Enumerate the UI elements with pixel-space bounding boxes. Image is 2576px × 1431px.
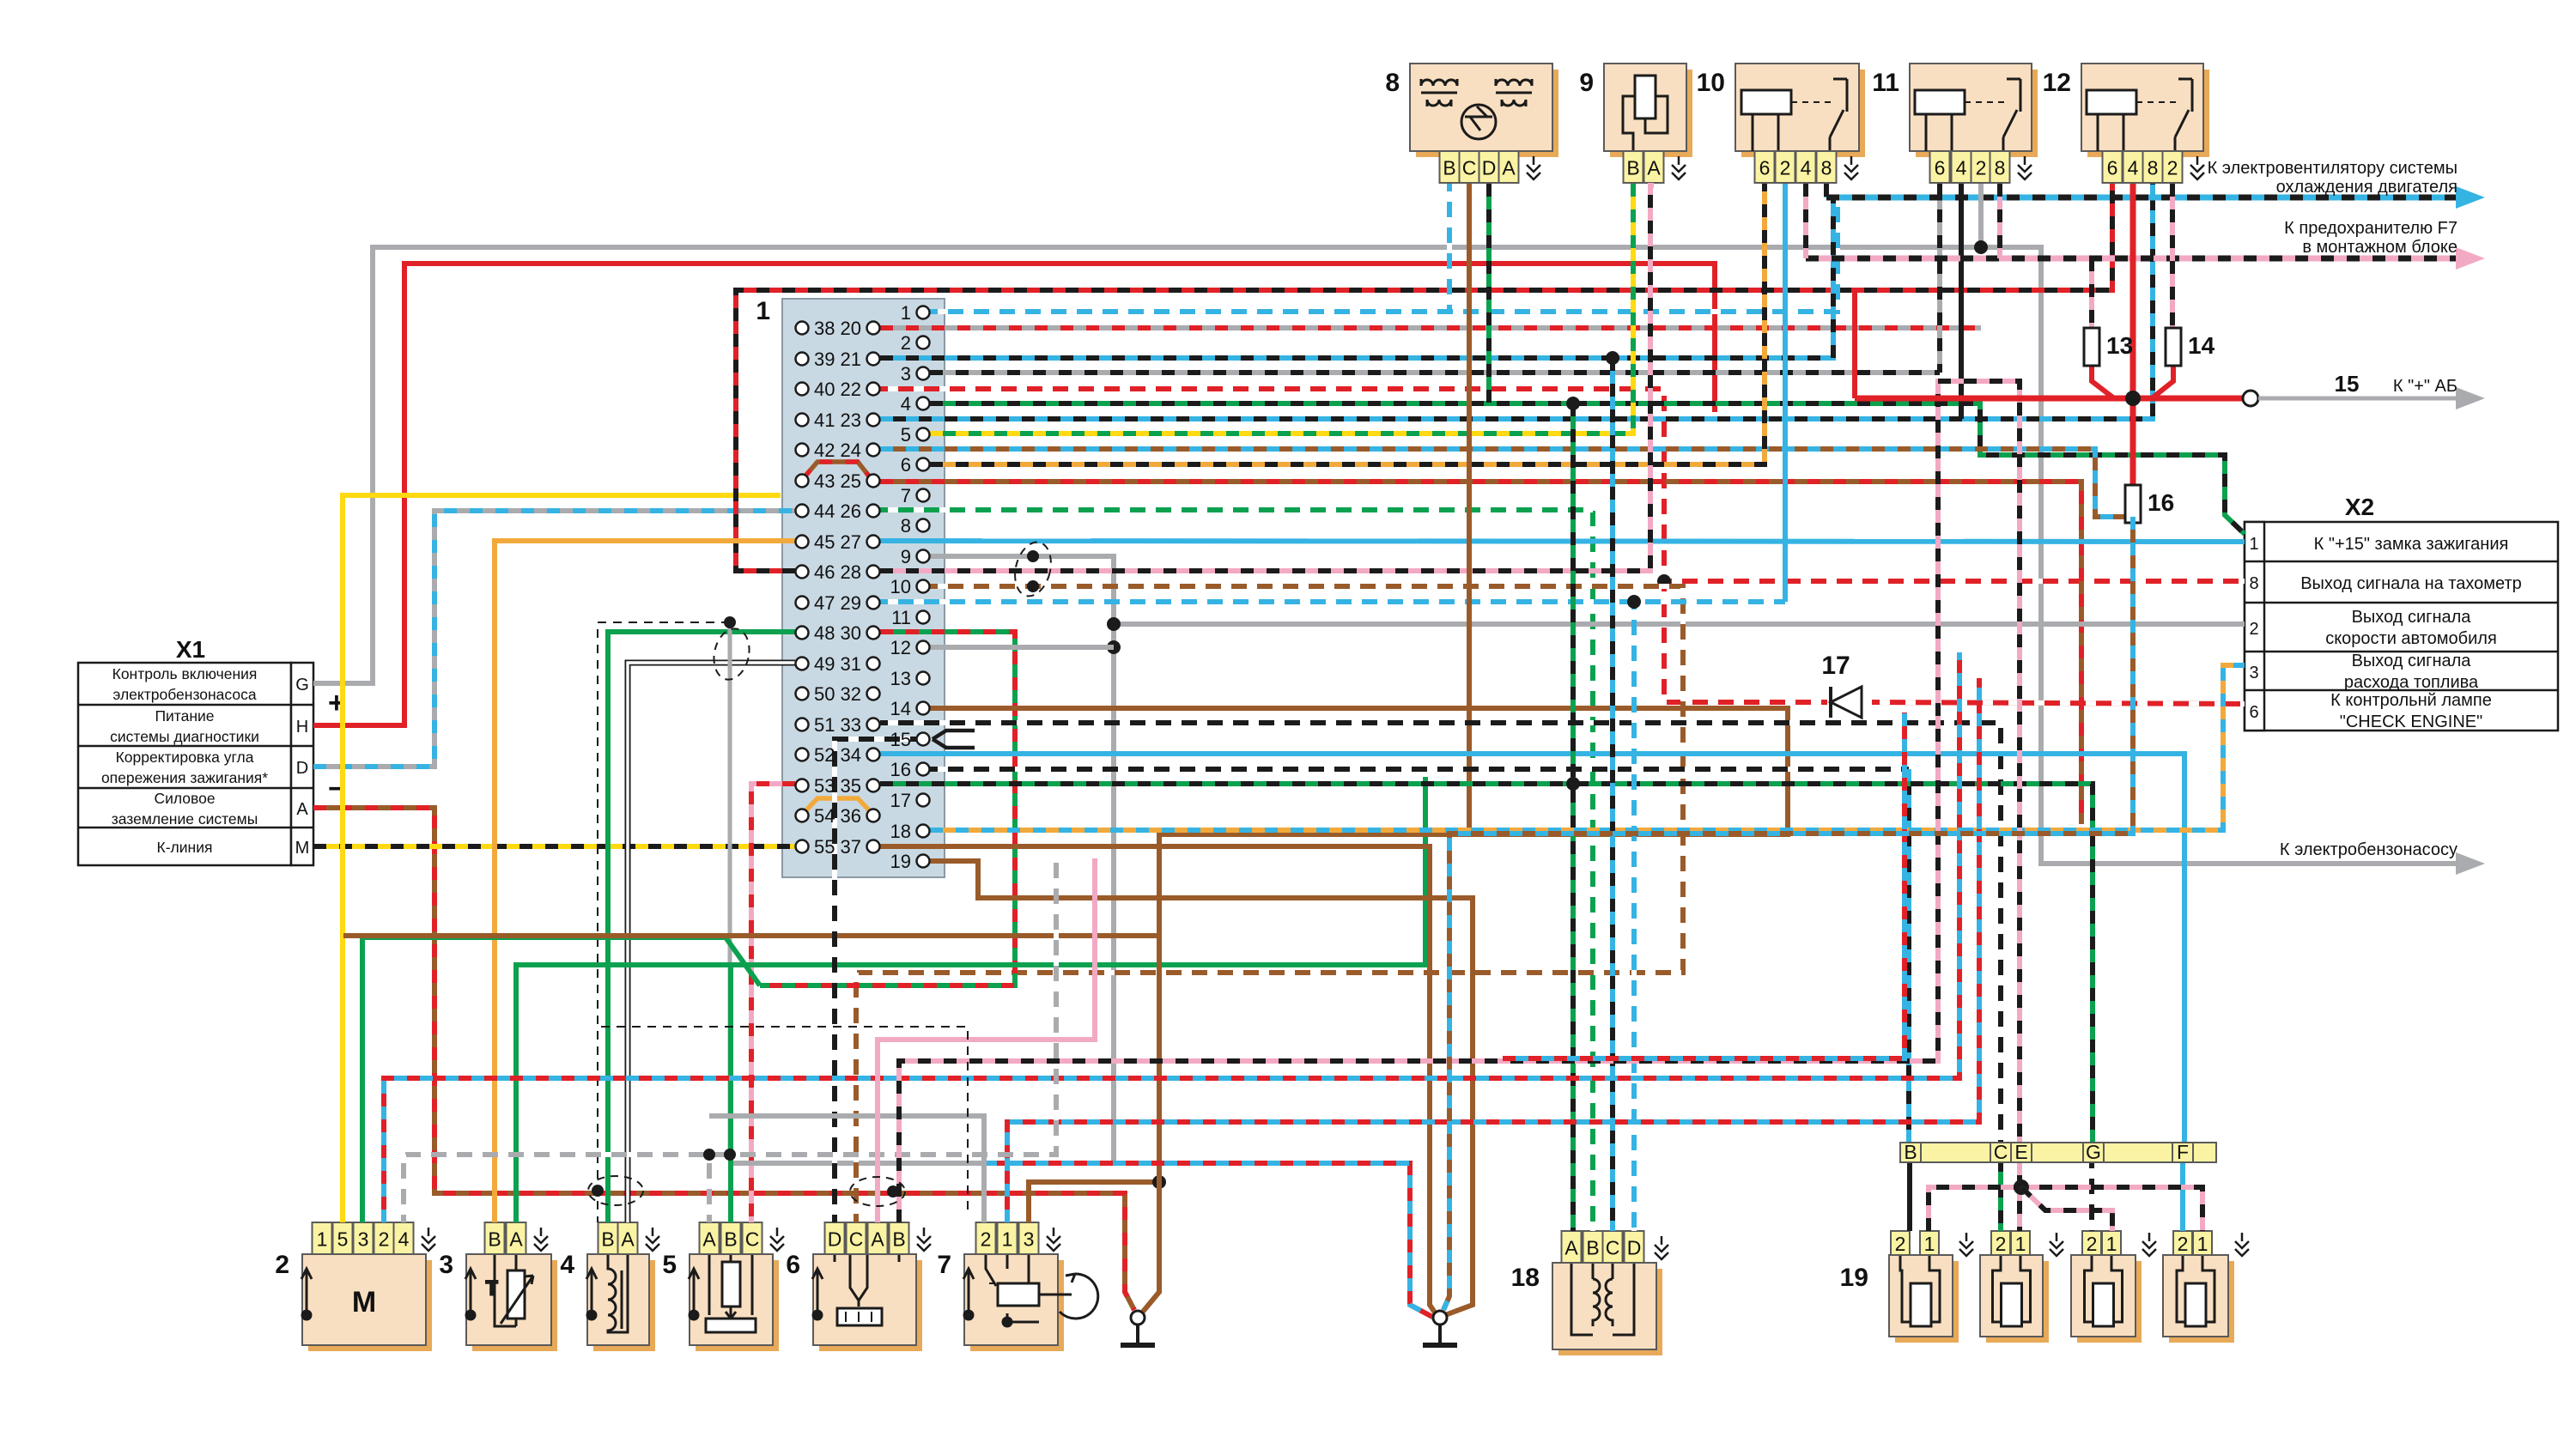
wire black-white injector 3 pin 2	[2089, 1161, 2094, 1231]
wire green crank sensor B to pin 48	[608, 632, 795, 1222]
svg-text:К электробензонасосу: К электробензонасосу	[2280, 840, 2458, 859]
shield screen dashed outline	[598, 622, 730, 1222]
svg-text:A: A	[1564, 1237, 1578, 1259]
wire pink-black to fuse 13	[2089, 258, 2094, 328]
wire gray-black pin 3 to relay 11 pin 6	[930, 370, 1940, 375]
wire pink-black to fuse F7	[1806, 256, 2456, 262]
svg-text:15: 15	[2335, 371, 2360, 397]
svg-text:14: 14	[890, 698, 911, 719]
wire gray-white pump pin 4 bus	[404, 858, 1056, 1222]
injector 19.3	[2077, 1261, 2142, 1343]
component 2 fuel pump motor	[308, 1260, 432, 1351]
wire red-white tachometer output to X2 row 8	[1664, 579, 2245, 584]
svg-text:Выход сигнала: Выход сигнала	[2352, 608, 2472, 627]
svg-text:11: 11	[891, 607, 911, 628]
wire green-yellow pin 5 to module 9 pin B	[930, 184, 1633, 434]
svg-text:21: 21	[841, 349, 861, 370]
svg-text:2: 2	[275, 1251, 289, 1279]
svg-text:7: 7	[937, 1251, 951, 1279]
module 9 spark plug block	[1610, 70, 1692, 157]
svg-text:34: 34	[841, 744, 861, 766]
svg-text:8: 8	[901, 515, 911, 537]
svg-text:31: 31	[841, 653, 861, 675]
svg-text:B: B	[1904, 1141, 1917, 1163]
svg-text:3: 3	[1024, 1228, 1035, 1251]
svg-text:"CHECK ENGINE": "CHECK ENGINE"	[2340, 712, 2482, 731]
relay 10	[1741, 70, 1865, 157]
svg-text:H: H	[296, 718, 308, 737]
svg-text:B: B	[601, 1228, 614, 1251]
svg-text:5: 5	[337, 1228, 349, 1251]
svg-text:8: 8	[2249, 574, 2258, 593]
wire blue pin 27 to X2 ignition switch row	[880, 541, 2245, 542]
wire brown-blue pin 24 to fuse 16	[880, 449, 2133, 517]
component 6 idle valve symbol	[835, 1254, 899, 1325]
svg-text:17: 17	[890, 790, 911, 811]
svg-text:2: 2	[1996, 1233, 2007, 1255]
wire blue-white pin 1	[930, 203, 1838, 312]
svg-text:системы диагностики: системы диагностики	[110, 728, 259, 745]
wire gray speed signal to X2 row 2	[1114, 622, 2245, 627]
svg-text:1: 1	[2197, 1233, 2208, 1255]
svg-text:1: 1	[756, 297, 770, 325]
connector X2 table	[2245, 522, 2558, 731]
wire green-white pin 26 to coil 18 B	[880, 510, 1593, 1231]
fuse 14	[2166, 328, 2215, 366]
ground	[1121, 1311, 1155, 1345]
svg-text:опережения зажигания*: опережения зажигания*	[101, 769, 268, 786]
svg-text:A: A	[509, 1228, 523, 1251]
svg-text:6: 6	[2107, 157, 2118, 179]
wire blue-black coil 18 C	[1610, 358, 1615, 1231]
wire black injector 1 pin 2	[1907, 1161, 1912, 1231]
svg-text:T: T	[486, 1277, 497, 1299]
wire jumper pin 54 to pin 36	[802, 798, 873, 815]
svg-text:12: 12	[890, 637, 911, 658]
svg-text:9: 9	[901, 546, 911, 567]
wire green-black module 8 pin D drop	[1486, 184, 1492, 403]
svg-text:2: 2	[1895, 1233, 1906, 1255]
svg-text:2: 2	[901, 332, 911, 354]
svg-text:B: B	[1586, 1237, 1599, 1259]
svg-text:A: A	[296, 800, 308, 819]
svg-text:C: C	[849, 1228, 864, 1251]
svg-text:Корректировка угла: Корректировка угла	[116, 749, 254, 766]
wire orange temp sensor B to pin 45	[495, 541, 795, 1222]
wire blue-white module 8 pin B	[1447, 184, 1452, 312]
svg-text:B: B	[724, 1228, 737, 1251]
svg-text:1: 1	[317, 1228, 328, 1251]
component 7 speed sensor	[970, 1260, 1064, 1351]
svg-text:G: G	[295, 676, 309, 694]
wire red fuse 13 out	[2092, 366, 2114, 398]
svg-text:47: 47	[814, 592, 835, 614]
wire gray shield drain	[728, 622, 732, 1155]
svg-text:43: 43	[814, 470, 835, 492]
wire black pin 15 fork upper	[933, 731, 975, 739]
wire brown ground bus	[343, 936, 1159, 1312]
svg-text:1: 1	[2015, 1233, 2026, 1255]
svg-text:45: 45	[814, 531, 835, 553]
relay coil and contact	[1915, 79, 2020, 151]
svg-text:охлаждения двигателя: охлаждения двигателя	[2276, 178, 2458, 197]
relay coil and contact	[1741, 79, 1847, 151]
component 3 coolant temp sensor	[472, 1260, 557, 1351]
injector 19.4	[2169, 1261, 2234, 1343]
svg-text:1: 1	[1924, 1233, 1935, 1255]
svg-text:электробензонасоса: электробензонасоса	[112, 686, 256, 703]
wire gray speed sensor pin 2	[709, 1116, 984, 1222]
wire brown-white pin 10 to idle valve C	[856, 586, 1683, 1222]
fuse 16	[2125, 485, 2174, 523]
svg-text:53: 53	[814, 775, 835, 797]
injector 19.1	[1895, 1261, 1959, 1343]
svg-text:13: 13	[2106, 332, 2133, 359]
wire blue-white coil 18 D	[1631, 602, 1637, 1231]
svg-text:заземление системы: заземление системы	[112, 810, 258, 828]
wire gray pin 12	[930, 645, 1114, 650]
svg-text:4: 4	[398, 1228, 410, 1251]
component 7 speed sensor symbol	[986, 1254, 1098, 1326]
fuse 13	[2084, 328, 2133, 366]
svg-text:12: 12	[2043, 69, 2071, 97]
wire brown module 8 pin C drop	[1467, 184, 1472, 834]
component 6 idle air control	[819, 1260, 922, 1351]
wire orange-black pin 6 to relay 10 pin 6	[930, 184, 1765, 464]
component 4 crankshaft sensor	[593, 1260, 655, 1351]
svg-text:46: 46	[814, 561, 835, 583]
svg-text:Выход сигнала на тахометр: Выход сигнала на тахометр	[2300, 574, 2522, 593]
svg-text:16: 16	[890, 759, 911, 780]
wire blue pin 34 to injector bar F	[880, 754, 2184, 1143]
svg-text:2: 2	[379, 1228, 390, 1251]
svg-text:15: 15	[890, 729, 911, 750]
svg-text:30: 30	[841, 622, 861, 644]
twisted pair ellipse pins 9-28	[1010, 538, 1056, 600]
wire gray-black relay 11 pin 6 drop	[1937, 184, 1942, 373]
svg-text:23: 23	[841, 409, 861, 431]
svg-text:D: D	[1482, 157, 1497, 179]
diode 17	[1831, 687, 1862, 718]
svg-text:41: 41	[814, 409, 835, 431]
svg-text:8: 8	[2148, 157, 2159, 179]
svg-text:55: 55	[814, 836, 835, 858]
svg-text:F: F	[2177, 1141, 2189, 1163]
svg-text:Контроль включения: Контроль включения	[112, 665, 258, 682]
svg-text:2: 2	[2249, 620, 2258, 639]
wire pink idle valve A	[878, 858, 1095, 1222]
ECU pins	[796, 302, 930, 872]
svg-text:29: 29	[841, 592, 861, 614]
wire red-black main power pin 46 to relay 12 pin 6	[736, 184, 2112, 571]
wire red node 15 bus	[1855, 396, 2243, 402]
svg-text:К контрольнй лампе: К контрольнй лампе	[2330, 691, 2492, 710]
wire red-blue pump relay bus	[384, 652, 1959, 1222]
svg-text:B: B	[1443, 157, 1455, 179]
svg-text:1: 1	[2249, 535, 2258, 554]
wire brown-red pin 25 bus	[880, 482, 2081, 824]
wire blue-black pin 21	[880, 197, 1833, 358]
wire red relay 12 pin 4 battery feed	[2130, 184, 2136, 485]
svg-text:A: A	[1502, 157, 1516, 179]
wire yellow-black K-line M to pin 55	[313, 844, 795, 849]
svg-text:11: 11	[1872, 69, 1899, 97]
svg-text:20: 20	[841, 318, 861, 339]
wire red-blue to ground	[984, 1163, 1434, 1318]
svg-text:A: A	[1647, 157, 1661, 179]
svg-text:7: 7	[901, 485, 911, 506]
svg-text:A: A	[871, 1228, 884, 1251]
svg-text:D: D	[828, 1228, 842, 1251]
svg-text:2: 2	[2167, 157, 2178, 179]
wire gray-white throttle pin A	[707, 1155, 712, 1222]
svg-text:Питание: Питание	[155, 707, 214, 725]
wire blue-red bus	[1503, 712, 1905, 1058]
wire green-black pin 35 to injector bar G	[880, 784, 2093, 1143]
svg-text:К "+" АБ: К "+" АБ	[2393, 377, 2458, 396]
svg-text:1: 1	[901, 302, 911, 324]
svg-text:B: B	[1626, 157, 1639, 179]
wire pink-black relay 12 pin 2 to fuse 14	[2170, 184, 2175, 328]
svg-text:скорости автомобиля: скорости автомобиля	[2325, 629, 2497, 648]
wire red diagnostics supply H	[313, 264, 1715, 725]
svg-text:3: 3	[439, 1251, 453, 1279]
svg-text:C: C	[745, 1228, 760, 1251]
svg-text:1: 1	[2106, 1233, 2117, 1255]
svg-text:16: 16	[2148, 489, 2174, 516]
svg-text:42: 42	[814, 440, 835, 461]
arrow to fuse F7 mounting block	[2456, 247, 2485, 270]
svg-text:в монтажном блоке: в монтажном блоке	[2302, 238, 2458, 257]
svg-text:10: 10	[1697, 69, 1725, 97]
wire green temp sensor A	[516, 777, 1425, 1222]
wire white pair crank sensor A to pin 49	[628, 663, 795, 1222]
svg-text:6: 6	[1759, 157, 1771, 179]
wire red fuse 14 out	[2152, 366, 2173, 398]
svg-text:48: 48	[814, 622, 835, 644]
wire blue-black to radiator fan	[1826, 195, 2456, 201]
relay 11	[1916, 70, 2038, 157]
wire blue-black relay 10 pin 8 drop	[1824, 184, 1829, 197]
shield screen dashed outline idle valve	[601, 1027, 968, 1210]
wire blue injector 4 pin 2	[2180, 1161, 2185, 1231]
wire brown-blue fuse 16 to engine ground	[1443, 517, 2133, 1310]
svg-text:3: 3	[358, 1228, 369, 1251]
svg-text:C: C	[1994, 1141, 2008, 1163]
svg-text:2: 2	[981, 1228, 992, 1251]
svg-text:К электровентилятору системы: К электровентилятору системы	[2208, 159, 2458, 178]
svg-text:54: 54	[814, 805, 835, 827]
svg-text:A: A	[621, 1228, 635, 1251]
svg-text:44: 44	[814, 500, 835, 522]
wire brown pin 14 return	[930, 708, 1788, 936]
wire pink-red throttle sensor C to pin 53	[751, 784, 795, 1222]
wire gray-blue ignition timing D to pin 44	[313, 511, 795, 767]
svg-text:6: 6	[786, 1251, 800, 1279]
connector X1 table	[78, 663, 313, 865]
svg-text:38: 38	[814, 318, 835, 339]
arrow to engine cooling fan	[2456, 186, 2485, 209]
svg-text:4: 4	[1956, 157, 1967, 179]
ECU connector block 1	[782, 299, 945, 877]
yellow connector bar B C E G F	[1900, 1143, 2216, 1162]
svg-text:27: 27	[841, 531, 861, 553]
wire red branch	[1852, 290, 1857, 398]
wire brown pin 19 to ground	[930, 861, 1473, 1315]
svg-text:39: 39	[814, 349, 835, 370]
svg-text:4: 4	[2128, 157, 2139, 179]
svg-text:13: 13	[890, 668, 911, 689]
wire green-black coil 18 A drop	[1571, 403, 1576, 1231]
component 3 thermistor symbol	[486, 1254, 533, 1326]
svg-text:2: 2	[2087, 1233, 2098, 1255]
wire gray pin 9 trunk	[730, 556, 1114, 1163]
component 18 ignition coil pack	[1558, 1269, 1662, 1355]
svg-text:2: 2	[1976, 157, 1987, 179]
svg-text:49: 49	[814, 653, 835, 675]
wire blue-white pin 29	[880, 599, 1785, 604]
wire red-white pin 22 to diode 17	[880, 389, 1827, 702]
svg-text:6: 6	[1935, 157, 1946, 179]
svg-text:19: 19	[890, 851, 911, 872]
wire gray relay 11 pin 2 drop	[1978, 184, 1984, 247]
wire pink-black injector 3 pin 1	[2021, 1187, 2112, 1231]
wire black-white pin 16	[930, 767, 1909, 772]
svg-text:9: 9	[1579, 69, 1594, 97]
wire green throttle sensor B	[728, 965, 733, 1222]
arrow to fuel pump	[2456, 852, 2485, 875]
svg-text:33: 33	[841, 714, 861, 736]
svg-text:E: E	[2014, 1141, 2027, 1163]
wire pink-black relay 11 pin 8 drop	[1997, 184, 2002, 258]
svg-text:52: 52	[814, 744, 835, 766]
svg-text:X1: X1	[176, 636, 205, 663]
svg-text:Силовое: Силовое	[154, 790, 215, 807]
wire gray fuel-pump control G to pump arrow	[313, 247, 2456, 864]
svg-text:18: 18	[890, 821, 911, 842]
svg-text:25: 25	[841, 470, 861, 492]
svg-text:3: 3	[2249, 664, 2258, 682]
module 9 plug symbol	[1623, 76, 1668, 151]
wire green-red pin 30	[760, 632, 1015, 985]
svg-text:24: 24	[841, 440, 861, 461]
svg-text:17: 17	[1821, 652, 1850, 680]
twisted pair ellipse sensor 4	[588, 1176, 643, 1205]
wire red-blue speed sensor pin 1 bus	[1007, 678, 1979, 1222]
svg-text:4: 4	[901, 393, 911, 415]
wire yellow pump motor feed	[343, 495, 781, 1222]
yellow connector bar B C E G F (top layer)	[1900, 1143, 2216, 1162]
svg-text:C: C	[1606, 1237, 1620, 1259]
svg-text:40: 40	[814, 379, 835, 400]
svg-text:D: D	[296, 759, 308, 778]
wire pink-black injector pin-1 bus	[1929, 1187, 2202, 1231]
wire brown-red power ground A	[313, 808, 1134, 1310]
svg-text:51: 51	[814, 714, 835, 736]
wire black pin 15 fork lower	[933, 739, 975, 748]
wire blue relay 10 pin 2 drop	[1783, 184, 1788, 602]
twisted pair ellipse idle valve 6	[850, 1177, 905, 1206]
svg-text:6: 6	[2249, 703, 2258, 722]
svg-text:К "+15" замка зажигания: К "+15" замка зажигания	[2314, 535, 2509, 554]
module 8 coil and transistor symbols	[1421, 79, 1532, 139]
svg-text:расхода топлива: расхода топлива	[2344, 673, 2479, 692]
svg-text:5: 5	[901, 424, 911, 446]
ground	[1423, 1311, 1457, 1345]
svg-text:1: 1	[1002, 1228, 1013, 1251]
wire black-blue to injector bar B	[1906, 769, 1911, 1143]
svg-text:8: 8	[1995, 157, 2006, 179]
wire pink-black relay 10 pin 4 drop	[1803, 184, 1808, 258]
component 4 inductive sensor coil	[608, 1254, 628, 1332]
svg-text:35: 35	[841, 775, 861, 797]
wire brown pin 37 to ground	[880, 846, 1437, 1315]
relay coil and contact	[2087, 79, 2192, 151]
svg-text:2: 2	[1780, 157, 1791, 179]
wire brown speed sensor pin3 joins ground trunk	[1029, 1182, 1159, 1222]
wire black-blue pin 23 to relay 12 pin 8	[880, 184, 2153, 419]
svg-text:19: 19	[1840, 1264, 1868, 1292]
wire black relay 11 pin 4 drop	[1959, 184, 1964, 419]
svg-text:4: 4	[1801, 157, 1812, 179]
svg-text:50: 50	[814, 683, 835, 705]
wire pink-black idle valve B via bar E to injector 2 pin 1	[899, 381, 2020, 1231]
wire black-white idle valve D to pin 15	[835, 739, 930, 1222]
svg-text:G: G	[2086, 1141, 2101, 1163]
wire orange-blue pin 18 fuel consumption to X2 row 3	[930, 665, 2245, 830]
svg-text:26: 26	[841, 500, 861, 522]
svg-text:К-линия: К-линия	[157, 839, 213, 856]
node 15 open circle	[2243, 391, 2258, 406]
svg-text:14: 14	[2188, 332, 2215, 359]
svg-text:5: 5	[662, 1251, 677, 1279]
svg-text:B: B	[488, 1228, 501, 1251]
svg-text:8: 8	[1821, 157, 1832, 179]
svg-text:X2: X2	[2345, 494, 2374, 520]
svg-text:8: 8	[1385, 69, 1400, 97]
wire green-black injector 2 pin 2	[1998, 1159, 2003, 1231]
svg-text:B: B	[892, 1228, 905, 1251]
svg-text:Выход сигнала: Выход сигнала	[2352, 652, 2472, 670]
wire gray-red pin 20	[880, 325, 1981, 330]
svg-text:C: C	[1462, 157, 1477, 179]
relay 12	[2087, 70, 2209, 157]
svg-text:A: A	[702, 1228, 716, 1251]
svg-text:6: 6	[901, 454, 911, 476]
module 8 ignition module	[1416, 70, 1558, 157]
svg-text:37: 37	[841, 836, 861, 858]
svg-text:M: M	[295, 839, 310, 858]
wire green-black pin 4 to X2 ignition +15	[930, 403, 2245, 534]
wire green pump motor pin 3	[362, 937, 760, 1222]
wire red-white diode to CHECK ENGINE lamp row	[1872, 702, 2245, 704]
twisted pair ellipse	[709, 625, 754, 682]
svg-text:4: 4	[560, 1251, 574, 1279]
svg-text:36: 36	[841, 805, 861, 827]
svg-text:28: 28	[841, 561, 861, 583]
svg-text:M: M	[352, 1286, 376, 1319]
svg-text:32: 32	[841, 683, 861, 705]
svg-text:22: 22	[841, 379, 861, 400]
svg-text:10: 10	[890, 576, 911, 597]
component 5 throttle potentiometer	[706, 1254, 756, 1332]
svg-text:К предохранителю F7: К предохранителю F7	[2284, 219, 2458, 238]
svg-text:2: 2	[2178, 1233, 2189, 1255]
arrow to battery +	[2456, 387, 2485, 409]
svg-text:D: D	[1627, 1237, 1642, 1259]
wire black-white pin 33 to injector bar C	[880, 723, 2001, 1147]
component 5 throttle position sensor	[696, 1260, 779, 1351]
